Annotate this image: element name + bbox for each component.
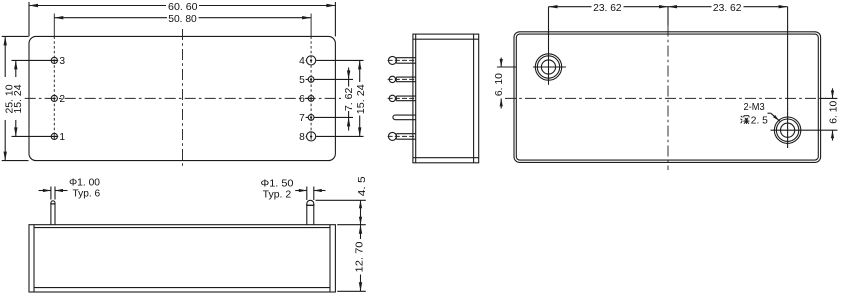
dimension 15.24 left	[15, 60, 17, 77]
end view: pin row 4	[388, 56, 396, 64]
top view: pin 3	[51, 57, 57, 63]
svg-text:2-M3: 2-M3	[744, 102, 765, 113]
svg-text:5: 5	[299, 75, 305, 86]
top view: pin 2	[51, 95, 57, 101]
svg-text:50. 80: 50. 80	[168, 14, 197, 25]
svg-text:60. 60: 60. 60	[168, 2, 198, 13]
dimension phi 1.00	[50, 187, 52, 200]
dimension 25.10	[2, 35, 29, 37]
top view: pin 7	[308, 115, 314, 121]
end view: inner left line	[415, 34, 417, 163]
end view: inner bottom line	[413, 157, 479, 159]
svg-text:4. 5: 4. 5	[357, 176, 368, 196]
top view: pin 8	[307, 132, 316, 141]
svg-text:1: 1	[59, 132, 65, 143]
bottom view: inner outline	[516, 34, 818, 160]
svg-text:7: 7	[299, 113, 305, 124]
svg-text:2: 2	[59, 94, 65, 105]
svg-text:23. 62: 23. 62	[593, 3, 622, 14]
svg-text:6. 10: 6. 10	[828, 100, 839, 123]
label depth 2.5 (CJK shen)	[741, 116, 750, 124]
end view: pin row 5	[389, 76, 395, 82]
dimension 6.10 right	[820, 97, 838, 99]
svg-text:15. 24: 15. 24	[13, 84, 24, 113]
side view: body outline	[29, 225, 335, 292]
svg-text:Φ1. 00: Φ1. 00	[69, 177, 100, 188]
svg-text:Typ. 2: Typ. 2	[263, 190, 292, 201]
side view: inner bottom line	[34, 287, 330, 289]
bottom view: mounting hole M3 bottom-right	[774, 117, 800, 143]
end view: pin row 7	[393, 115, 416, 120]
end view: inner right line	[473, 34, 475, 163]
top view: pin 4	[307, 56, 316, 65]
dimension 6.10 left	[497, 66, 517, 68]
bottom view: horizontal center line	[505, 97, 826, 99]
top view: extension line pin 5	[314, 78, 353, 80]
svg-text:15. 24: 15. 24	[356, 84, 367, 114]
svg-text:4: 4	[299, 56, 305, 67]
svg-text:6. 10: 6. 10	[494, 73, 505, 96]
side view: left pin (dia 1.00)	[50, 203, 52, 225]
dimension 50.80	[54, 17, 167, 19]
svg-text:3: 3	[59, 56, 65, 67]
svg-text:Φ1. 50: Φ1. 50	[261, 179, 294, 190]
end view: inner top line	[413, 38, 479, 40]
side view: inner top line	[34, 227, 330, 229]
top view: extension line pin3	[12, 59, 59, 61]
svg-text:8: 8	[299, 132, 305, 143]
dimension phi 1.50	[306, 187, 308, 201]
svg-text:6: 6	[299, 94, 305, 105]
top view: pin 5	[308, 77, 314, 83]
top view: left pin-column extension line	[53, 14, 55, 37]
top view: package body outline	[29, 36, 335, 160]
top view: extension line pin 8	[316, 135, 363, 137]
top view: extension line pin 4	[316, 59, 363, 61]
bottom view: body outline	[514, 32, 821, 163]
top view: extension line pin1	[12, 135, 59, 137]
svg-text:Typ. 6: Typ. 6	[73, 188, 101, 199]
dimension 15.24 right	[359, 60, 361, 82]
dimension 4.5	[316, 199, 366, 201]
dimension 60.60	[28, 2, 30, 36]
svg-text:23. 62: 23. 62	[713, 3, 742, 14]
side view: right flange line	[329, 225, 331, 292]
dimension 7.62	[348, 68, 350, 87]
top view: pin 6	[308, 96, 314, 102]
side view: right pin (dia 1.50)	[306, 204, 308, 225]
leader line to hole 2	[768, 112, 771, 114]
top view: horizontal center line through pins 2 and 6	[25, 97, 341, 99]
side view: left flange line	[33, 225, 35, 292]
dimension 23.62 left segment	[548, 7, 550, 49]
top view: pin 1	[51, 133, 57, 139]
top view: vertical center line	[182, 29, 184, 168]
svg-text:7. 62: 7. 62	[344, 87, 355, 111]
svg-text:12. 70: 12. 70	[355, 241, 366, 272]
top view: extension line pin 7	[314, 116, 353, 118]
end view: pin row 8	[388, 132, 396, 140]
dimension 12.70	[337, 290, 366, 292]
end view: body outline	[413, 34, 479, 163]
end view: pin row 6	[389, 95, 395, 101]
svg-text:2. 5: 2. 5	[751, 115, 768, 126]
dimension 23.62 right segment	[787, 7, 789, 112]
top view: right pin-column extension line	[310, 14, 312, 37]
bottom view: vertical center line	[667, 26, 669, 171]
bottom view: mounting hole M3 top-left	[535, 54, 561, 80]
